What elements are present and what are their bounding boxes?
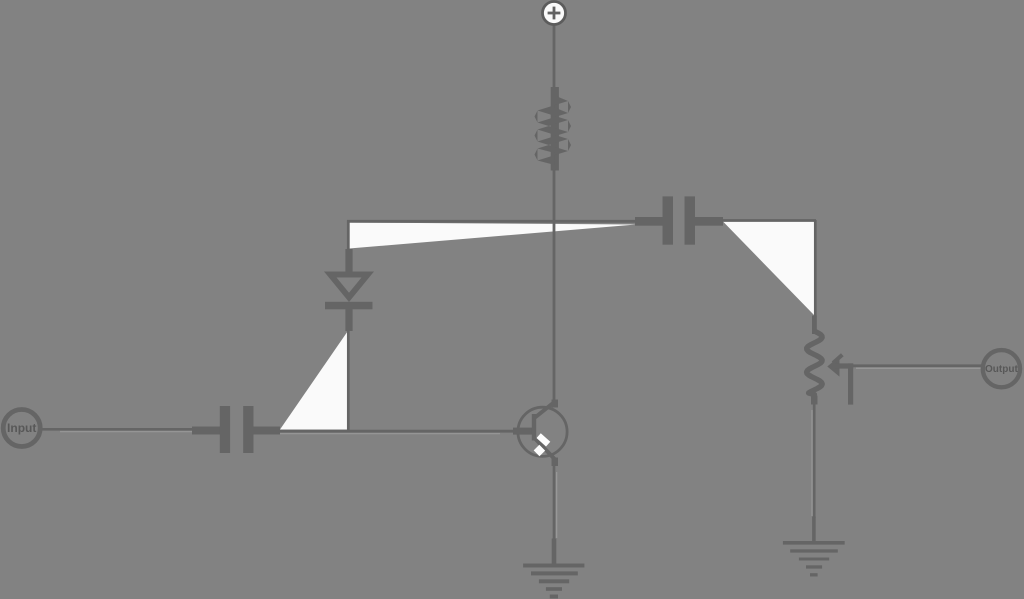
- output port: [983, 350, 1020, 387]
- wire resistor R1 to transistor collector: [553, 169, 556, 401]
- white triangle left of diode lower wire: [280, 332, 348, 430]
- wire V+ to resistor R1: [553, 24, 556, 90]
- wire corner down to potentiometer: [814, 220, 817, 317]
- white triangle right of top capacitor: [723, 222, 814, 316]
- wire potentiometer bottom to ground: [813, 404, 816, 518]
- white wedge under top-left horizontal wire: [349, 223, 636, 249]
- potentiometer wiper arrow: [827, 355, 853, 405]
- input port: [3, 410, 40, 447]
- capacitor C1: [192, 406, 280, 453]
- ground (right): [783, 517, 845, 577]
- wire top horizontal node (diode/cap/resistor): [347, 220, 636, 223]
- wire diode D1 to input node: [347, 330, 350, 431]
- power supply V+: [543, 2, 566, 25]
- wire elbow down to diode D1: [347, 221, 350, 251]
- ground (center): [523, 539, 584, 599]
- potentiometer R2: [807, 316, 823, 405]
- transistor Q1: [513, 400, 567, 467]
- wire wiper to output port: [853, 364, 981, 367]
- wire transistor emitter to ground: [553, 464, 556, 540]
- wire capacitor C1 to transistor base: [280, 430, 514, 433]
- resistor R1: [535, 87, 572, 171]
- capacitor C2: [635, 196, 723, 244]
- svg-text:Input: Input: [7, 421, 36, 435]
- wire input port to capacitor C1: [42, 428, 193, 431]
- svg-text:Output: Output: [985, 364, 1018, 375]
- diode D1: [324, 249, 374, 331]
- wire capacitor C2 to potentiometer (top): [723, 219, 817, 222]
